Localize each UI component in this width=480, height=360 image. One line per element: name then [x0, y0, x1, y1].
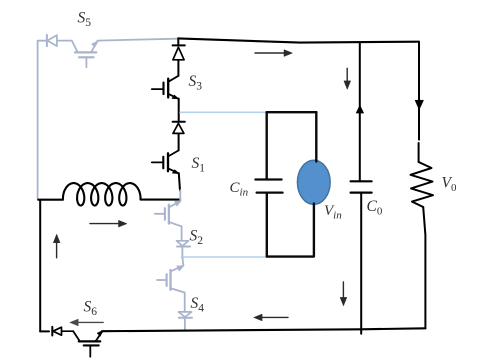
svg-text:S1: S1	[192, 155, 206, 175]
wire: light blue tap from S2-S4 node to Cin bottom corner	[182, 256, 268, 258]
svg-text:S2: S2	[190, 228, 204, 248]
wire: light left rail from S5 down to inductor node	[37, 41, 39, 199]
svg-text:C0: C0	[367, 198, 383, 218]
IGBT S5	[72, 41, 98, 68]
diode of S4 (points down)	[179, 312, 193, 318]
wire: S3 emitter to D1	[178, 99, 180, 122]
wire: Cin branch lower lead	[266, 194, 268, 257]
wire: bottom rail (S6 to V0 corner)	[102, 328, 425, 331]
wire: S5 emitter to top node	[97, 39, 177, 41]
arrowhead down on V0 branch	[415, 100, 423, 109]
svg-text:Vin: Vin	[324, 203, 342, 222]
arrow down (annotation left of C0 bottom)	[340, 282, 347, 306]
wire: V0 branch lead segment 2	[418, 143, 420, 162]
wire: light blue tap from S3-D1 node to Cin top corner	[180, 111, 267, 113]
IGBT S2 (light)	[155, 190, 182, 226]
diode D3 (top of string, points up)	[173, 45, 185, 59]
wire: S1 emitter down to mid node	[179, 173, 180, 190]
svg-text:S5: S5	[78, 10, 92, 30]
wire: C0 lower lead to bottom rail	[360, 193, 362, 334]
wire: V0 branch upper lead	[418, 42, 420, 140]
arrow left (annotation above S6)	[70, 319, 103, 326]
inductor L (coil)	[63, 183, 141, 205]
svg-text:S3: S3	[189, 73, 203, 93]
wire: inductor to mid node	[141, 199, 181, 201]
wire: top rail	[178, 38, 419, 42]
wire: S4 diode stub to bottom rail	[184, 318, 186, 330]
diode of S5 (points left)	[47, 35, 72, 46]
wire: D3 to S3	[177, 60, 179, 76]
svg-text:S6: S6	[84, 299, 98, 319]
wire: S5 input stub	[38, 40, 47, 42]
wire: C0 branch from top rail	[359, 42, 361, 181]
arrow down (annotation left of C0 top)	[344, 68, 351, 89]
source Vin (ellipse)	[297, 160, 330, 204]
wire: Cin branch upper lead (box left side)	[266, 112, 268, 178]
wire: Vin branch upper lead	[315, 112, 317, 161]
arrow right (inductor current annotation)	[90, 220, 127, 227]
wire: S2 diode to S4 node	[181, 247, 183, 258]
diode D1 (points up)	[173, 122, 185, 134]
arrowhead up on C0 branch	[356, 106, 363, 113]
capacitor C0	[351, 181, 372, 192]
wire: S4 emitter to its diode	[184, 292, 186, 311]
IGBT S3	[152, 76, 179, 99]
diode of S2 (points down)	[177, 241, 191, 247]
wire: S2 emitter to its diode	[181, 226, 183, 240]
wire: Vin branch lower lead	[313, 204, 315, 257]
arrow right (top annotation)	[255, 50, 292, 57]
svg-text:V0: V0	[442, 175, 457, 195]
capacitor Cin	[255, 180, 282, 193]
svg-text:S4: S4	[191, 295, 205, 315]
IGBT S4 (light)	[157, 258, 184, 293]
IGBT S6	[73, 331, 102, 357]
diode of S6 (points left)	[52, 327, 73, 336]
wire: top node to diode D3	[177, 38, 179, 45]
IGBT S1	[152, 150, 180, 173]
arrow up (left annotation)	[53, 234, 60, 257]
resistor V0 (zigzag)	[411, 162, 434, 207]
wire: V0 bottom lead down to bottom rail	[423, 207, 425, 328]
wire: left rail to inductor	[38, 199, 63, 201]
wire: box bottom (Vin to Cin)	[267, 255, 314, 257]
wire: D1 to S1	[178, 134, 180, 151]
wire: left rail black (down left side)	[39, 200, 41, 332]
wire: bottom rail left stub	[40, 330, 49, 332]
wire: box top (Cin to Vin)	[267, 111, 317, 113]
svg-text:Cin: Cin	[230, 180, 249, 199]
arrow left (annotation on bottom rail)	[254, 314, 288, 321]
